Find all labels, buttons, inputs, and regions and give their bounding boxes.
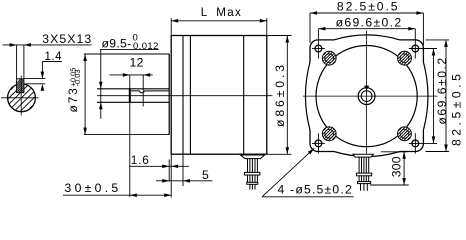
svg-text:3X5X13: 3X5X13 <box>42 32 92 46</box>
svg-text:4 -ø5.5±0.2: 4 -ø5.5±0.2 <box>278 182 353 196</box>
svg-text:5: 5 <box>202 168 209 182</box>
svg-text:82.5±0.5: 82.5±0.5 <box>449 71 463 146</box>
svg-text:30±0.5: 30±0.5 <box>65 181 122 195</box>
svg-text:ø69.6±0.2: ø69.6±0.2 <box>336 15 403 29</box>
svg-text:ø9.5-: ø9.5- <box>102 36 132 50</box>
svg-text:-0.03: -0.03 <box>73 69 82 86</box>
svg-text:82.5±0.5: 82.5±0.5 <box>337 0 400 14</box>
svg-text:12: 12 <box>130 55 144 69</box>
svg-text:0.012: 0.012 <box>133 41 159 52</box>
svg-text:1.6: 1.6 <box>131 153 150 167</box>
svg-text:ø73: ø73 <box>66 86 80 112</box>
svg-text:L: L <box>201 6 208 19</box>
svg-text:Max: Max <box>216 6 242 19</box>
svg-text:ø69.6±0.2: ø69.6±0.2 <box>435 56 449 124</box>
svg-text:300: 300 <box>389 156 403 177</box>
svg-text:ø86±0.3: ø86±0.3 <box>273 62 287 127</box>
